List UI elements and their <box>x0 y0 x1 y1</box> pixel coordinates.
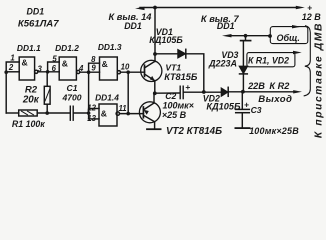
node DD1.4 feed junction <box>87 70 91 74</box>
svg-text:2: 2 <box>8 63 14 72</box>
node VD1 tap <box>153 52 157 56</box>
wire C3 bottom lead <box>241 113 243 127</box>
gate DD1.2 input tie <box>48 62 60 72</box>
transistor VT2 <box>139 102 160 123</box>
transistor VT1 <box>141 60 162 81</box>
node emitters/C2 junction <box>153 91 157 95</box>
node DD1.4 tie junction <box>87 111 91 115</box>
wire VD1 anode <box>155 53 178 55</box>
wire K R1,VD2 label box <box>247 53 295 67</box>
svg-text:С2: С2 <box>165 91 176 101</box>
svg-text:5: 5 <box>52 55 57 64</box>
node VD1-VD2 junction <box>202 90 206 94</box>
svg-text:4700: 4700 <box>61 92 81 102</box>
svg-text:&: & <box>21 58 27 68</box>
wire VD1 cathode down to C2/VD2 node <box>186 54 204 92</box>
svg-text:DD1.2: DD1.2 <box>55 43 79 53</box>
svg-text:DD1.3: DD1.3 <box>98 42 122 52</box>
gate DD1.1 body <box>19 57 34 80</box>
wire DD1.3 out to VT1 base <box>121 71 145 73</box>
gate DD1.2 output bubble <box>77 70 80 73</box>
wire R2 bottom lead <box>46 104 48 113</box>
gate DD1.3 input tie <box>89 63 100 72</box>
wire C3 top lead <box>241 92 243 109</box>
svg-text:&: & <box>101 109 107 119</box>
wire VD2 to output arrow <box>229 91 295 93</box>
wire VT2 collector down <box>154 122 156 129</box>
ground chassis bar under C3 <box>235 127 249 129</box>
svg-text:DD1.4: DD1.4 <box>95 93 119 103</box>
wire arrow +12V (right) <box>296 6 305 9</box>
capacitor C2 <box>179 86 181 98</box>
gate DD1.4 body <box>99 104 117 126</box>
svg-text:10: 10 <box>121 63 130 72</box>
svg-text:20к: 20к <box>22 95 40 106</box>
svg-text:К561ЛА7: К561ЛА7 <box>18 18 59 29</box>
diode VD1 <box>178 50 185 58</box>
node base tie bottom <box>126 112 130 116</box>
svg-text:12 В: 12 В <box>302 12 322 22</box>
resistor R2 body <box>44 86 50 104</box>
svg-text:VT2 КТ814Б: VT2 КТ814Б <box>166 126 222 137</box>
svg-text:Выход: Выход <box>258 94 292 105</box>
svg-text:К R1, VD2: К R1, VD2 <box>248 55 289 65</box>
svg-text:К R2: К R2 <box>269 81 290 91</box>
svg-text:9: 9 <box>91 64 96 73</box>
diode VD2 <box>221 88 227 96</box>
svg-text:DD1.1: DD1.1 <box>17 43 41 53</box>
svg-text:22В: 22В <box>247 81 265 91</box>
svg-text:DD1: DD1 <box>26 7 44 17</box>
svg-text:КД105Б: КД105Б <box>206 102 241 112</box>
wire C1 to DD1.4 inputs <box>74 112 89 114</box>
wire second rail (K vyv.7) <box>227 35 270 37</box>
wire DD1.4 out to VT2 base <box>120 113 144 115</box>
ground chassis bar under VT2 <box>147 128 161 130</box>
gate DD1.3 body <box>100 57 118 80</box>
svg-text:4: 4 <box>78 64 84 73</box>
svg-text:1: 1 <box>10 53 14 62</box>
gate DD1.3 output bubble <box>117 71 120 74</box>
wire Obshch label box <box>270 27 308 44</box>
wire arrow Vyhod <box>293 90 302 93</box>
capacitor C1 <box>69 106 71 120</box>
wire VT2 emitter up to node <box>153 93 155 103</box>
svg-text:13: 13 <box>87 114 96 123</box>
brace K pristavke DMV <box>304 26 310 96</box>
wire DD1.1 bottom input stub <box>6 71 19 73</box>
svg-text:8: 8 <box>91 55 96 64</box>
wire VD3 vertical <box>242 42 244 67</box>
wire C2 to VD2 <box>184 91 222 93</box>
wire top +12V rail <box>140 7 297 9</box>
svg-text:+: + <box>185 82 190 92</box>
wire arrow K R1,VD2 <box>293 51 302 54</box>
svg-text:DD1: DD1 <box>217 21 235 31</box>
wire arrow K vyv.7 (left) <box>222 34 232 37</box>
capacitor C3 <box>236 108 250 110</box>
svg-text:×25 В: ×25 В <box>162 110 187 120</box>
wire VT1 collector vertical <box>154 8 156 62</box>
wire VT1/VT2 base tie vertical <box>127 72 129 113</box>
svg-text:3: 3 <box>38 64 43 73</box>
wire vertical DD1.2 out down to DD1.4 inputs <box>88 72 90 119</box>
svg-text:DD1: DD1 <box>124 21 142 31</box>
node R2 bottom junction <box>45 111 49 115</box>
svg-text:100мк×25В: 100мк×25В <box>249 126 299 136</box>
node R2 / DD1.2 tie junction <box>46 70 50 74</box>
gate DD1.1 output bubble <box>35 70 38 73</box>
svg-text:&: & <box>102 59 108 69</box>
svg-text:VT1: VT1 <box>165 62 181 72</box>
resistor R1 body <box>19 110 38 116</box>
svg-text:КТ815Б: КТ815Б <box>164 72 198 82</box>
node base tie top <box>126 70 130 74</box>
gate DD1.1 input tie <box>6 62 19 113</box>
node Obshch box connection <box>268 34 272 38</box>
svg-text:+: + <box>244 100 249 110</box>
svg-text:6: 6 <box>52 64 57 73</box>
node top rail to VT1 collector <box>153 6 157 10</box>
wire VD3 cathode to output node <box>242 74 244 92</box>
wire R1 to C1 <box>37 112 70 114</box>
diode VD3 <box>240 66 248 73</box>
svg-text:&: & <box>62 59 68 69</box>
wire node to C2 <box>155 92 180 94</box>
svg-text:11: 11 <box>119 104 127 113</box>
wire R2 top lead <box>46 72 48 87</box>
svg-text:С3: С3 <box>251 105 262 115</box>
gate DD1.2 body <box>59 57 76 80</box>
wire arrow K vyv.14 (left) <box>135 7 145 10</box>
wire bottom R1/C1 line <box>6 112 19 114</box>
gate DD1.4 input stubs <box>89 108 99 110</box>
node on left tie <box>4 70 8 74</box>
svg-text:R1 100к: R1 100к <box>12 119 45 129</box>
svg-text:12: 12 <box>87 104 96 113</box>
node chassis stub <box>244 34 248 38</box>
svg-text:Общ.: Общ. <box>276 33 300 43</box>
svg-text:КД105Б: КД105Б <box>149 35 183 45</box>
ground chassis bar under K vyv.7 wire <box>245 36 247 40</box>
wire DD1.1 out to DD1.2 in <box>38 71 59 73</box>
svg-text:100мк×: 100мк× <box>162 101 194 111</box>
wire DD1.2 out to DD1.3 in <box>80 71 100 73</box>
wire arrow on Obshch box top <box>292 25 301 28</box>
gate DD1.4 output bubble <box>116 112 119 115</box>
svg-text:К приставке ДМВ: К приставке ДМВ <box>314 22 325 138</box>
node VD3/C3/output junction <box>241 90 245 94</box>
wire VT1 emitter down <box>154 81 156 94</box>
svg-text:Д223А: Д223А <box>208 59 237 69</box>
